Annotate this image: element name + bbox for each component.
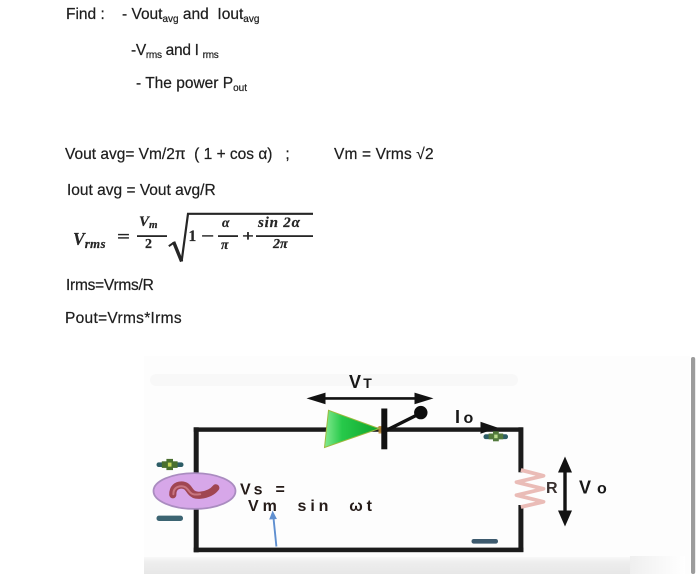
svg-text:R: R: [546, 480, 558, 497]
thyristor VT anode triangle: [379, 426, 383, 434]
circuit screenshot area: [0, 350, 700, 574]
annotation arrow (blue): [269, 511, 277, 547]
VT voltage span arrow: [307, 393, 434, 405]
Vrms equation (serif math): [0, 0, 1, 1]
svg-text:Vs =: Vs =: [240, 482, 288, 499]
svg-text:VT: VT: [349, 372, 374, 392]
ac source VS: [154, 473, 236, 509]
wire: top: [194, 427, 523, 431]
top text block: [66, 6, 259, 24]
current arrowhead (Io) on top wire: [481, 422, 499, 434]
wire: left: [194, 427, 199, 552]
Vo measurement arrow: [558, 457, 572, 527]
plus polarity mark (load side, top right): [484, 431, 509, 441]
wire: bottom: [194, 548, 524, 553]
svg-text:Vm sin ωt: Vm sin ωt: [248, 498, 376, 515]
wire: right upper segment: [518, 427, 523, 472]
resistor R: [517, 470, 544, 507]
thyristor VT gate lead: [385, 414, 420, 432]
minus polarity mark (load side, bottom): [472, 539, 499, 544]
thyristor VT cathode bar: [381, 409, 387, 450]
svg-text:Vo: Vo: [579, 478, 613, 498]
plus polarity mark (source, above): [157, 459, 184, 470]
thyristor VT gate terminal dot: [414, 406, 427, 419]
minus polarity mark (source, below): [157, 516, 184, 521]
wire: right lower segment: [518, 505, 523, 552]
svg-text:Io: Io: [455, 407, 477, 427]
